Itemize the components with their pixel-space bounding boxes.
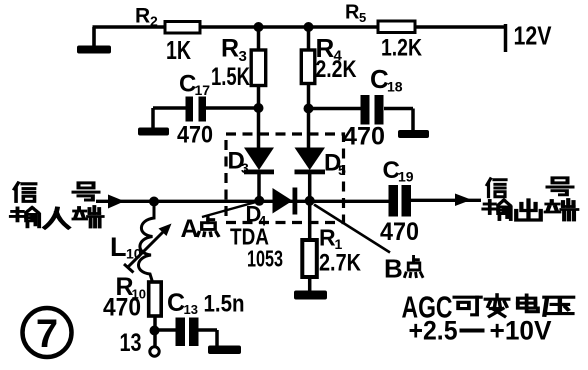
- wire R10 to pin 13: [153, 316, 157, 346]
- node junction R3/top: [254, 22, 264, 32]
- svg-text:C: C: [167, 289, 185, 317]
- capacitor C17: [177, 71, 213, 149]
- svg-text:1.5K: 1.5K: [211, 63, 250, 91]
- svg-text:470: 470: [103, 294, 141, 322]
- diode D4: [246, 188, 298, 229]
- ground C17: [138, 128, 169, 136]
- svg-text:2.7K: 2.7K: [319, 250, 362, 277]
- resistor R2: [135, 5, 200, 66]
- inductor L10: [110, 202, 172, 283]
- svg-text:13: 13: [184, 302, 198, 317]
- svg-text:470: 470: [380, 218, 419, 246]
- svg-text:A: A: [181, 215, 199, 243]
- svg-text:R: R: [135, 5, 150, 28]
- wire C18 link: [309, 109, 414, 132]
- label AGC range: [409, 316, 552, 346]
- wire D3 to node A: [257, 174, 261, 200]
- label signal output: [483, 178, 577, 220]
- svg-text:1.5n: 1.5n: [204, 291, 245, 318]
- svg-text:+10V: +10V: [490, 316, 552, 346]
- resistor R5: [345, 2, 423, 62]
- wire C17 link: [153, 108, 258, 128]
- svg-text:470: 470: [177, 122, 213, 149]
- wire R3 branch: [257, 27, 261, 148]
- node B callout: [314, 205, 403, 284]
- svg-text:3: 3: [241, 160, 249, 176]
- pin 13 terminal: [120, 329, 160, 357]
- svg-text:1K: 1K: [166, 35, 191, 65]
- svg-text:R: R: [221, 35, 239, 63]
- svg-text:470: 470: [343, 123, 385, 151]
- resistor R3: [211, 35, 266, 92]
- node A callout: [181, 202, 257, 243]
- node A junction: [254, 196, 264, 206]
- label AGC voltage: [402, 290, 574, 325]
- node junction R4/top: [304, 22, 314, 32]
- ground R1: [294, 291, 327, 300]
- ground C18: [398, 130, 429, 138]
- svg-text:7: 7: [36, 312, 58, 356]
- wire C13 link: [155, 330, 218, 347]
- svg-text:13: 13: [120, 329, 142, 357]
- svg-text:2: 2: [150, 13, 158, 29]
- wire D5 to node B: [308, 174, 312, 200]
- node B junction: [305, 196, 315, 206]
- svg-text:1.2K: 1.2K: [381, 35, 423, 62]
- wire R4 branch: [307, 27, 311, 148]
- capacitor C19: [380, 157, 419, 246]
- node +12V terminal: [506, 21, 553, 53]
- ground C13: [208, 346, 241, 355]
- svg-text:5: 5: [338, 162, 346, 178]
- ground top-left: [77, 27, 111, 54]
- resistor R1: [302, 225, 361, 278]
- svg-text:10: 10: [126, 246, 142, 262]
- node junction R10/C13: [150, 326, 160, 336]
- resistor R10: [103, 273, 161, 322]
- capacitor C13: [167, 289, 245, 346]
- resistor R4: [301, 33, 357, 84]
- svg-text:R: R: [345, 2, 360, 24]
- node junction R3/C17: [254, 103, 264, 113]
- label signal input: [11, 183, 103, 228]
- svg-text:12V: 12V: [514, 21, 553, 51]
- svg-text:2.2K: 2.2K: [316, 56, 358, 83]
- node B label dian: [405, 257, 423, 277]
- node L10 junction: [149, 197, 159, 207]
- capacitor C18: [343, 64, 403, 151]
- wire R1 branch: [308, 201, 312, 291]
- figure number 7: [23, 308, 72, 357]
- svg-text:1053: 1053: [247, 246, 283, 272]
- node output arrow: [455, 194, 472, 207]
- diode D5: [295, 148, 347, 179]
- svg-text:R: R: [319, 225, 336, 251]
- diode D3: [228, 148, 275, 177]
- svg-text:19: 19: [398, 169, 414, 185]
- wire top rail: [93, 25, 505, 29]
- node junction R4/C18: [304, 104, 314, 114]
- svg-text:+2.5: +2.5: [409, 316, 458, 346]
- node A label dian: [198, 216, 219, 235]
- svg-text:17: 17: [195, 82, 211, 98]
- op-amp U1 TDA1053 dashed box: [226, 134, 344, 223]
- svg-text:18: 18: [387, 79, 403, 95]
- node input arrow: [108, 195, 125, 209]
- wire signal line: [96, 200, 481, 201]
- op-amp U1 label TDA1053: [230, 224, 283, 272]
- svg-text:5: 5: [359, 10, 366, 25]
- svg-text:L: L: [110, 232, 127, 262]
- svg-text:B: B: [384, 254, 403, 284]
